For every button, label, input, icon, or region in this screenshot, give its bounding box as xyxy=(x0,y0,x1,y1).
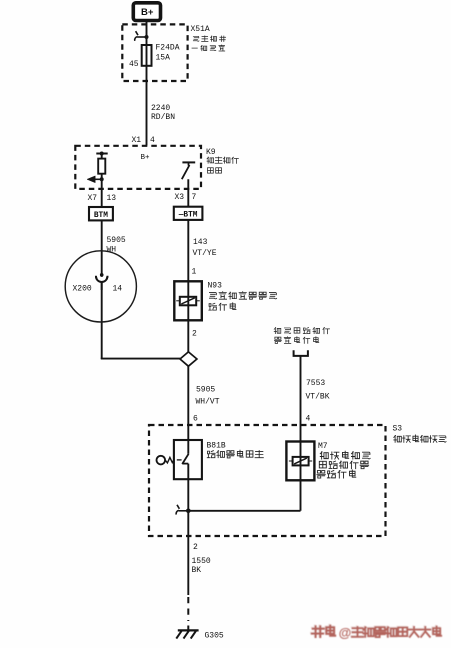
svg-text:F24DA: F24DA xyxy=(156,44,180,53)
svg-text:BK: BK xyxy=(192,566,202,575)
svg-text:14: 14 xyxy=(113,285,123,294)
svg-text:13: 13 xyxy=(107,194,117,203)
svg-text:1: 1 xyxy=(192,268,197,277)
svg-text:2240: 2240 xyxy=(151,104,170,113)
svg-text:BTM: BTM xyxy=(94,212,108,220)
svg-text:—BTM: —BTM xyxy=(178,212,198,220)
svg-text:2: 2 xyxy=(193,543,198,552)
svg-text:WH/VT: WH/VT xyxy=(196,398,220,407)
svg-text:7553: 7553 xyxy=(306,379,325,388)
svg-text:VT/BK: VT/BK xyxy=(306,393,330,402)
svg-text:S3: S3 xyxy=(393,425,403,434)
svg-text:6: 6 xyxy=(193,415,198,424)
svg-text:5905: 5905 xyxy=(196,386,215,395)
svg-text:B+: B+ xyxy=(141,154,151,162)
svg-text:N93: N93 xyxy=(208,282,223,291)
svg-text:7: 7 xyxy=(192,193,197,202)
svg-text:1550: 1550 xyxy=(192,557,211,566)
svg-text:K9: K9 xyxy=(206,148,216,157)
svg-text:RD/BN: RD/BN xyxy=(151,113,175,122)
svg-text:2: 2 xyxy=(192,330,197,339)
svg-text:@: @ xyxy=(339,625,352,640)
svg-text:M7: M7 xyxy=(318,442,328,451)
svg-text:4: 4 xyxy=(306,415,311,424)
svg-text:5905: 5905 xyxy=(107,236,126,245)
svg-text:45: 45 xyxy=(129,60,139,69)
svg-text:VT/YE: VT/YE xyxy=(193,249,217,258)
svg-text:B+: B+ xyxy=(141,7,154,18)
svg-text:WH: WH xyxy=(107,246,117,255)
svg-text:X51A: X51A xyxy=(191,25,210,34)
svg-text:143: 143 xyxy=(193,238,208,247)
svg-text:G305: G305 xyxy=(205,632,224,641)
svg-text:4: 4 xyxy=(150,136,155,145)
svg-text:X1: X1 xyxy=(132,136,142,145)
svg-text:X3: X3 xyxy=(175,193,185,202)
svg-text:X7: X7 xyxy=(88,194,98,203)
svg-text:B81B: B81B xyxy=(207,442,226,451)
svg-text:15A: 15A xyxy=(156,54,171,63)
svg-text:X200: X200 xyxy=(73,285,92,294)
